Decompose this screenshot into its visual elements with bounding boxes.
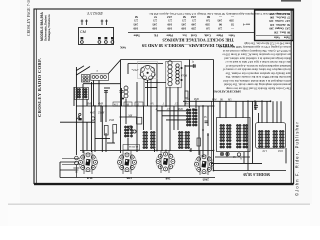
svg-text:from 540 to 1725 kilocycles. T: from 540 to 1725 kilocycles. The high: [244, 41, 291, 45]
label boxes on bus: [113, 102, 143, 106]
svg-text:Grid: Grid: [191, 33, 197, 37]
svg-text:2M5: 2M5: [202, 178, 209, 182]
svg-text:2A5: 2A5: [190, 15, 196, 19]
IF transformer T2 windings: [166, 61, 182, 88]
svg-text:17B: 17B: [126, 176, 132, 180]
component labels: [87, 61, 236, 160]
svg-text:350: 350: [205, 22, 210, 26]
RF coil L2: [91, 69, 109, 81]
resistor R1: [104, 91, 200, 146]
svg-text:Tube: Tube: [133, 33, 140, 37]
svg-text:2A7: 2A7: [166, 15, 172, 19]
svg-text:*2A7: *2A7: [132, 68, 139, 72]
header rule: [128, 32, 254, 34]
svg-text:are available for operation fr: are available for operation from AC line…: [222, 53, 291, 57]
svg-text:MW: MW: [192, 108, 197, 111]
page edge shadow: [8, 204, 310, 205]
coil T4: [178, 131, 189, 148]
svg-text:MODELS 58,59: MODELS 58,59: [243, 172, 270, 176]
svg-text:4M5: 4M5: [90, 112, 96, 115]
svg-text:remained superheterodyne recei: remained superheterodyne receivers. A sp…: [225, 64, 291, 68]
svg-text:Plate: Plate: [216, 33, 223, 37]
svg-text:57 Det.Osc. 100: 57 Det.Osc. 100: [270, 16, 290, 19]
svg-text:Volts: Volts: [228, 33, 235, 37]
svg-text:100: 100: [133, 26, 138, 30]
bus B: [183, 100, 271, 102]
svg-text:and in the Model 59B it is in: and in the Model 59B it is in the consol…: [225, 75, 291, 79]
svg-text:100: 100: [167, 22, 172, 26]
svg-text:to 550 F-25 cycles. The freque: to 550 F-25 cycles. The frequency ranges…: [223, 49, 291, 53]
svg-text:100: 100: [181, 26, 186, 30]
misc short wires: [109, 60, 121, 74]
svg-text:8MF: 8MF: [87, 103, 93, 106]
svg-text:Plate: Plate: [166, 33, 173, 37]
antenna: [75, 67, 77, 155]
svg-text:ww-4: ww-4: [243, 22, 250, 26]
svg-text:57: 57: [154, 15, 158, 19]
antenna coil L1: [82, 75, 90, 83]
svg-text:CROSLEY PAGE 7-10: CROSLEY PAGE 7-10: [27, 0, 31, 36]
svg-text:10,000 Ω: 10,000 Ω: [129, 145, 139, 148]
svg-text:circuit employs five tubes; th: circuit employs five tubes; these models…: [222, 68, 291, 72]
tube V1 2A7: [132, 62, 158, 81]
svg-text:5.0: 5.0: [206, 19, 210, 23]
svg-text:58 2nd Det. 245: 58 2nd Det. 245: [270, 23, 290, 26]
svg-text:240: 240: [191, 22, 196, 26]
terminal strip CM box: [79, 28, 114, 45]
audio transformer T3: [143, 131, 155, 148]
svg-text:5U8: 5U8: [86, 176, 92, 180]
svg-text:2.5: 2.5: [192, 19, 196, 23]
terminal tick marks: [81, 20, 108, 26]
model title block: [40, 12, 51, 41]
junction dots: [94, 100, 271, 171]
svg-text:470M: 470M: [181, 75, 188, 78]
svg-text:Tube Volts: Tube Volts: [273, 35, 290, 38]
svg-text:2A5 Output 240: 2A5 Output 240: [269, 27, 290, 30]
svg-text:0K: 0K: [220, 98, 223, 101]
svg-text:©John F. Rider, Publisher: ©John F. Rider, Publisher: [295, 121, 300, 196]
main bus A: [76, 105, 214, 107]
svg-text:MW: MW: [212, 98, 217, 101]
svg-text:4MF: 4MF: [98, 103, 104, 106]
socket V1 58: [79, 153, 98, 180]
header row: [133, 33, 235, 37]
svg-text:80: 80: [207, 15, 211, 19]
svg-text:90: 90: [219, 22, 223, 26]
svg-text:2A7 1st Det. 245: 2A7 1st Det. 245: [269, 19, 290, 22]
svg-text:55: 55: [231, 22, 235, 26]
svg-text:SPECIFICATIONS: SPECIFICATIONS: [213, 89, 241, 93]
svg-text:Voltages,Trimmers: Voltages,Trimmers: [47, 14, 51, 41]
trimmer capacitors under T6: [220, 152, 242, 160]
svg-text:present models employing the s: present models employing the same circui…: [224, 83, 291, 87]
svg-text:WK: WK: [120, 45, 126, 49]
trimmers mid left: [91, 117, 136, 133]
svg-text:type literally the speakers re: type literally the speakers respond to t…: [225, 71, 291, 75]
svg-text:Scr.: Scr.: [182, 33, 187, 37]
svg-text:245: 245: [152, 22, 157, 26]
small transformer T8: [124, 126, 132, 137]
svg-text:MF: MF: [129, 115, 133, 118]
svg-text:2.5: 2.5: [168, 19, 172, 23]
IF transformer T6 box: [217, 118, 251, 152]
svg-text:18.8: 18.8: [278, 149, 283, 152]
vertical wires: [73, 87, 75, 106]
svg-text:CM: CM: [80, 30, 86, 34]
svg-text:2.0: 2.0: [218, 26, 222, 30]
svg-text:Cath.: Cath.: [204, 33, 211, 37]
svg-text:4M5: 4M5: [194, 98, 200, 101]
socket V3 268: [156, 152, 175, 180]
svg-text:waves of paging 1725 to approx: waves of paging 1725 to approximately 54…: [218, 45, 291, 49]
svg-text:58 I.F.Amp. 245: 58 I.F.Amp. 245: [269, 12, 290, 15]
svg-text:4M5: 4M5: [185, 102, 191, 105]
svg-text:245: 245: [181, 22, 186, 26]
svg-text:58: 58: [135, 15, 139, 19]
svg-text:4½: 4½: [151, 102, 154, 105]
svg-text:pile of the circuit is that a: pile of the circuit is that a type 2A7 t…: [225, 60, 291, 64]
svg-text:268: 268: [165, 177, 170, 181]
svg-text:58: 58: [183, 15, 187, 19]
svg-text:250: 250: [191, 26, 196, 30]
svg-text:2.5: 2.5: [182, 19, 186, 23]
scanner mark top edge: [281, 0, 301, 2]
svg-text:1.W: 1.W: [262, 149, 267, 152]
border frame: [34, 9, 294, 185]
svg-text:245: 245: [133, 22, 138, 26]
power transformer T1: [75, 88, 89, 100]
svg-text:3.0: 3.0: [206, 26, 210, 30]
svg-text:THE SOCKET VOLTAGE READINGS: THE SOCKET VOLTAGE READINGS: [162, 38, 234, 43]
svg-text:Fil.: Fil.: [154, 33, 158, 37]
svg-text:2.5: 2.5: [134, 19, 138, 23]
svg-text:350: 350: [229, 19, 234, 23]
switch SW: [76, 113, 81, 120]
svg-text:100: 100: [167, 26, 172, 30]
svg-text:25M: 25M: [109, 119, 115, 122]
oscillator coil L3: [122, 86, 128, 99]
oscillator transformer T5: [186, 109, 197, 126]
speaker box with output transformer T7: [256, 123, 286, 152]
boxed label 10,000 OHM: [123, 145, 140, 151]
wire top loop: [121, 59, 214, 61]
svg-text:245: 245: [217, 19, 222, 23]
table cells: [133, 15, 250, 30]
capacitor C1: [104, 64, 258, 123]
svg-text:25MF: 25MF: [98, 112, 105, 115]
socket V2 178: [118, 153, 137, 180]
svg-text:CROSLEY RADIO CORP.: CROSLEY RADIO CORP.: [37, 58, 42, 117]
lower horizontals: [121, 116, 138, 118]
svg-text:80 Rect. 350: 80 Rect. 350: [273, 30, 290, 33]
svg-text:430 62.5 V.: 430 62.5 V.: [86, 11, 103, 15]
svg-text:4M5: 4M5: [178, 108, 184, 111]
socket V4 2A5: [195, 155, 214, 182]
svg-text:100: 100: [152, 26, 157, 30]
svg-text:2.5: 2.5: [153, 19, 157, 23]
power plug P1: [73, 156, 79, 177]
